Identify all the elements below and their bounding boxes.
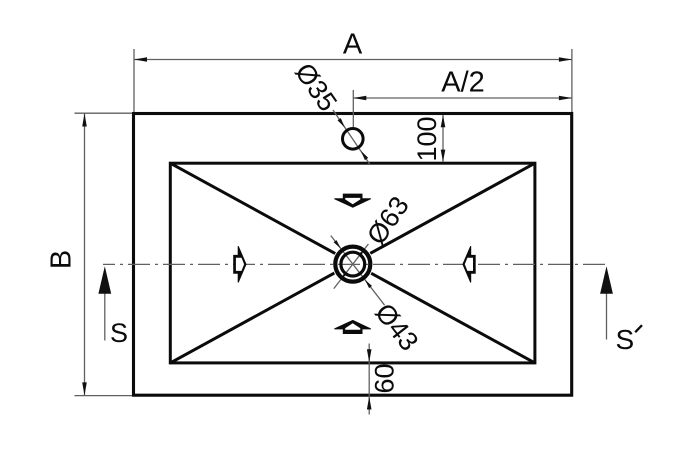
svg-text:100: 100: [412, 116, 442, 161]
section marker S-prime tick: [635, 325, 642, 332]
dimension 60 line: [368, 344, 370, 415]
dimension A/2 line: [353, 97, 572, 99]
slope arrow top (points down): [334, 194, 370, 207]
svg-text:60: 60: [369, 363, 399, 393]
dimension A line: [134, 59, 572, 61]
drain white mask: [332, 244, 373, 285]
dimension 100 line: [442, 115, 444, 162]
dimension B line: [84, 113, 86, 395]
dimension A/2 extension line (center): [352, 90, 354, 127]
drain dim line Ø43: [331, 236, 385, 306]
svg-text:Ø43: Ø43: [369, 298, 424, 357]
svg-text:Ø35: Ø35: [289, 58, 343, 117]
drain dim line Ø63: [334, 244, 369, 289]
svg-text:A/2: A/2: [441, 67, 485, 99]
svg-text:B: B: [46, 250, 78, 269]
section marker S-prime line: [606, 291, 608, 340]
outer rectangle (basin outline): [134, 114, 572, 396]
bowl diagonal TL-BR: [170, 163, 535, 363]
slope arrow left (points right): [234, 246, 246, 282]
faucet hole circle: [343, 129, 364, 150]
dimension B extension line top: [75, 112, 133, 114]
faucet hole dim line Ø35: [333, 110, 370, 164]
inner rectangle (bowl): [170, 163, 535, 363]
svg-text:S: S: [616, 324, 635, 355]
slope arrow right (points left): [463, 246, 475, 282]
dimension B extension line bottom: [75, 395, 133, 397]
centerline (dash-dot): [103, 263, 607, 265]
slope arrow bottom (points up): [334, 320, 370, 333]
section marker S arrow: [98, 266, 111, 294]
drain inner circle: [341, 252, 365, 276]
section marker S line: [104, 291, 106, 341]
svg-text:A: A: [343, 29, 363, 61]
dimension A extension line right: [571, 49, 573, 112]
svg-text:S: S: [110, 318, 128, 348]
dimension A extension line left: [133, 49, 135, 112]
drain outer circle: [335, 247, 370, 282]
bowl diagonal BL-TR: [170, 163, 535, 363]
section marker S-prime arrow: [600, 266, 613, 294]
